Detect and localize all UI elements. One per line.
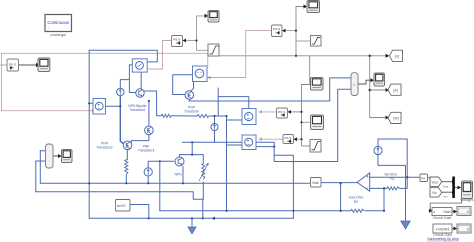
current source 2 [211,124,218,131]
wire saturation E output long run to goto tag1 [208,55,389,57]
junction dots gray [0,30,430,212]
wire op-amp upper input to Vo [370,176,420,178]
svg-text:x: x [434,210,436,214]
controlled voltage source V1 [93,99,106,115]
display1b [457,207,471,216]
scope B [38,58,50,72]
transistor T2 PNP [185,91,194,100]
wire branch to PS-S K [288,111,302,113]
scope J [374,73,385,86]
resistor R1 horizontal [387,187,399,190]
wire mux1 out to scope J [358,80,371,84]
display2 constant [433,224,452,237]
scope Voltages [460,181,474,202]
wire T2 emitter down to line B [188,99,190,101]
wire ground1 stub [191,218,193,227]
svg-text:R1: R1 [390,177,394,181]
svg-text:[A]: [A] [394,89,398,93]
wire mux bar to Voltages scope [455,187,461,189]
wire PS-S O output to controlled source V4 [259,138,284,140]
op-amp triangle pointing left [357,173,370,191]
Vsrc small block on line D [311,178,322,188]
wire From Vin to mux bar [442,191,453,193]
scope I [311,78,324,91]
svg-text:R2: R2 [354,200,358,204]
wire top rail into ammeter [89,50,157,62]
svg-text:powergui: powergui [50,33,66,37]
wire Vo block right stub [428,177,431,179]
current source 1 [117,88,124,95]
svg-text:0: 0 [467,227,469,231]
wire R2 junction up to op-amp output [340,183,342,211]
saturation E [208,44,219,56]
controlled voltage source V3 [242,109,256,125]
wire sensor V2 top up to scope D [197,16,205,50]
svg-text:fcn+0: fcn+0 [117,204,126,208]
from tag Vin [430,188,448,199]
from tag Vout [430,177,448,189]
svg-text:Transistor1: Transistor1 [129,108,146,112]
resistor Rc vertical [125,160,128,174]
wire column x226 down and left ports of V3 V4 [226,116,228,211]
wire feedback line R2 run [160,210,351,212]
wire V2 source bottom to T2 [191,82,194,91]
wire op-amp lower input stub [370,187,384,189]
svg-text:Noninverting Op Amp: Noninverting Op Amp [427,237,459,241]
transistor T5 NPN [175,157,184,166]
scope L [311,115,324,130]
wire Ra to Rb [171,115,197,117]
wire V1 left port to loop [89,102,93,104]
wire From Vout to mux bar [442,181,453,183]
wire ammeter right to PNP base column [129,65,135,93]
PS-S converter O (flipped) [283,135,294,144]
wire current source3 top over to T5 base [148,161,174,168]
svg-text:>: > [353,83,355,87]
wire current source2 down to long line C [214,130,216,142]
current source 3 [144,168,152,176]
transistor T4 PNP [145,126,154,135]
wire branch to saturation H [296,40,311,42]
svg-text:Circuit Gain: Circuit Gain [433,216,452,220]
goto tag1 [390,50,403,61]
svg-text:1+R2/R1: 1+R2/R1 [436,227,450,231]
wire current source1 up over to T1 [120,80,129,89]
transistor T1 NPN [136,89,144,97]
wire fcn output down to rail [130,205,149,219]
scope G [307,1,320,13]
wire T4 bottom down to current source3 [131,135,149,143]
scope D [208,11,219,23]
svg-text:PS S: PS S [9,62,16,66]
wire branch to scope L [302,121,311,123]
wire V1 right port to column [106,105,121,107]
wire long line C with elbow to mux column [182,142,337,161]
wire T5 emitter down to line D [182,167,184,184]
resistor Ra horizontal [161,114,171,117]
display1 divide [432,208,452,221]
wire PS-S F output to controlled source V2 [207,31,272,78]
current source 4 [374,146,382,154]
powergui block [45,15,72,37]
wire long line B [189,78,351,101]
svg-text:NPN: NPN [175,173,183,177]
svg-text:Continuous: Continuous [47,20,69,25]
wire long line A [217,88,219,116]
wire mux2 input2 [36,160,46,162]
goto tag2 [388,84,401,95]
wire long line D to op-amp [40,182,310,184]
wire PS-S A to scope B [19,64,37,66]
svg-text:Vout Ohm: Vout Ohm [349,196,364,200]
svg-text:Vo: Vo [421,177,425,181]
svg-text:Transistor2: Transistor2 [96,146,113,150]
wire V4 lower right port [256,146,274,148]
wire V2 source left port [173,75,193,95]
svg-text:0: 0 [467,210,469,214]
wire mux column vertical up to mux input2 [338,89,351,161]
ground 1 [188,227,196,234]
svg-text:[V]: [V] [395,55,399,59]
wire elbow down to rail [202,199,204,218]
svg-text:?: ? [48,27,50,31]
svg-text:Vout: Vout [443,185,449,189]
svg-text:Transistor3: Transistor3 [138,149,155,153]
mux2 [46,144,54,168]
svg-text:Gain: Gain [443,210,450,214]
wire R1 left column [384,188,387,210]
svg-text:Vsat: Vsat [312,181,318,185]
Vo measure block [420,174,428,182]
transistor T3 PNP [123,141,132,150]
svg-text:Voltages: Voltages [460,198,474,202]
wire var resistor bottom [202,182,204,199]
wire junction to PS-S C [183,40,197,42]
svg-text:PS S: PS S [278,110,285,114]
wire current source4 bottom to ground2 [378,155,406,221]
current measurement block (ammeter) [132,59,147,72]
wire T1 collector to ammeter bottom [140,72,142,89]
wire Rb right to junction column [209,115,226,117]
wire R1 right up to output line [399,177,407,188]
display2b [457,224,471,233]
wire Vsrc right to op-amp tip [321,182,357,184]
svg-text:Vin: Vin [444,195,449,199]
svg-text:PS S: PS S [285,136,292,140]
wire T5 base left and down to rail [159,161,161,211]
wire var resistor top link [192,155,203,164]
wire display1 to display1b [452,211,457,213]
controlled voltage source V2 [193,66,208,82]
wire current source3 bottom to line D [147,176,149,183]
goto tag3 [388,112,401,123]
wire PS-S C output left and down to far left chain [148,41,171,70]
controlled voltage source V4 [242,135,256,150]
PS-S converter K (flipped) [277,108,288,118]
wire tag column down to tag3 [370,90,386,118]
PS-S converter C (flipped) [172,36,183,47]
fcn block [116,200,131,212]
PS-S converter A [7,59,19,71]
variable resistor Rv vertical with arrow [199,163,208,181]
svg-text:[W]: [W] [394,117,399,121]
wire PS-S K output to controlled source V3 [259,111,277,113]
resistor Rb horizontal [197,114,209,117]
wire tag column down to tag2 [370,56,386,90]
wire junction to saturation E [197,49,209,51]
wire T4 top to line A [148,101,150,126]
ground 2 [401,221,410,229]
svg-text:Vin: Vin [432,191,437,195]
wire branch to PS-S F [282,30,296,32]
svg-text:PS S: PS S [273,27,280,31]
svg-text:PS S: PS S [173,38,180,42]
wire junction down to current source2 [214,116,216,124]
wire display2 to display2b [452,228,457,230]
svg-text:Val Ohm: Val Ohm [384,173,397,177]
scope N [58,150,72,163]
wire Rc bottom to line D [125,175,127,184]
blue junction dots [88,100,408,220]
PS-S converter F (flipped) [272,25,283,37]
wire mux2 out to scope N [53,155,58,157]
mux1 [351,73,358,96]
wire T5 collector from junction [180,142,193,157]
wire T3 bottom to resistor Rc [126,150,127,160]
wire current source1 down to T3 [120,96,123,144]
wire display feed down from scope bar [430,199,462,211]
svg-text:Vout: Vout [432,180,439,184]
wire long line E [36,192,204,199]
saturation P [310,140,321,153]
wire T1 emitter to resistor Ra [144,91,161,116]
wire tap to PS-S A [2,64,8,66]
resistor R2 horizontal [351,209,364,212]
wire mux2 input1 [40,150,45,152]
saturation H [311,36,322,47]
mux bar black [452,177,455,199]
svg-text:Transistor: Transistor [184,110,199,114]
wire branch to PS-S O [294,138,302,140]
wire current source4 loop top [378,139,407,177]
wire vertical feed scope I / K / L / O / P [309,56,311,85]
wire left loop vertical [88,50,90,218]
wire bottom rail [89,217,293,219]
wire vertical link x293 [274,155,293,218]
wire vertical feed of scope G / PS-S F / saturation H [296,7,307,56]
